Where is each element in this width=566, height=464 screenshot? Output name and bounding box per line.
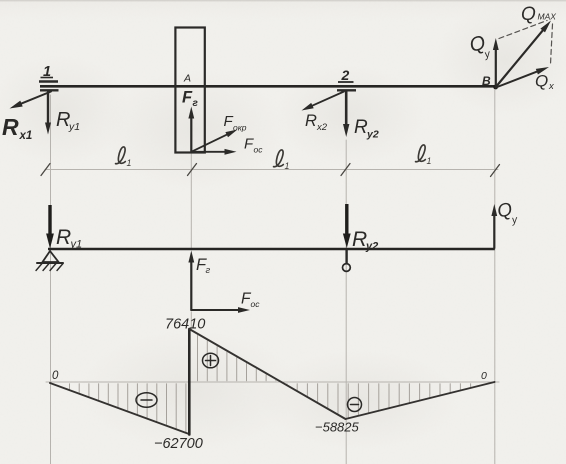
svg-text:Q: Q [521,4,536,25]
svg-text:R: R [354,117,368,138]
svg-text:R: R [352,228,367,251]
svg-text:y2: y2 [365,241,378,253]
force Ry2 arrow (top) [345,91,348,126]
force Ry2 arrow (middle) [345,204,348,236]
shear diagram segment 3 (-58825 to 0) [346,382,495,419]
force Fr arrow (top, up) [190,117,192,152]
shear diagram hatching (positive area) [197,335,199,381]
force Ry1 arrow (middle) [48,205,51,236]
svg-text:R: R [2,114,19,140]
shear diagram segment 2 (76410 to -58825) [189,329,345,419]
svg-text:0: 0 [481,370,487,382]
crank plate at A [175,28,204,153]
svg-text:A: A [183,73,191,85]
svg-text:ос: ос [254,145,264,155]
middle beam [48,248,495,250]
svg-text:y1: y1 [70,239,83,251]
svg-text:76410: 76410 [165,317,205,333]
pin support under Ry1 [43,251,59,262]
force Fos arrow (middle) [191,309,239,311]
construction line at support 2 [345,140,347,464]
roller support post under 2 [345,250,347,264]
node B dot [493,85,498,90]
force Fr arrow (middle, up) [190,261,192,310]
svg-text:1: 1 [427,156,432,166]
svg-text:R: R [305,112,317,130]
force Qmax arrow [496,29,544,87]
svg-text:F: F [182,89,193,107]
svg-text:0: 0 [52,370,59,382]
svg-text:B: B [482,74,491,88]
parallelogram dashed edge (Qmax tip to Qx tip) [551,24,553,64]
svg-text:x2: x2 [316,122,328,133]
construction line at support 1 [50,95,52,464]
paper grain [0,0,1,1]
roller support circle under 2 [343,264,351,272]
shear diagram hatching (right negative area) [286,383,288,385]
construction line at point B [494,90,496,464]
beam (shaft) [40,85,496,88]
svg-text:R: R [56,226,71,249]
svg-text:1: 1 [285,161,290,171]
shear diagram jump at A [188,329,191,435]
force Qy arrow (middle) [493,215,495,249]
svg-text:ос: ос [251,299,261,309]
dimension tick at A [188,164,197,176]
dimension tick at 2 [341,164,350,176]
svg-text:2: 2 [341,67,350,83]
force Qy arrow (top) [495,49,497,87]
support 2 symbol [337,89,356,91]
svg-text:x1: x1 [19,130,33,142]
shear diagram hatching (left negative area) [69,384,71,389]
svg-text:окр: окр [233,123,247,133]
force Rx2 arrow [311,92,344,107]
force Fos arrow (top) [191,151,226,153]
force Rx1 arrow [20,92,51,105]
svg-text:y1: y1 [68,121,80,133]
svg-text:г: г [193,98,199,109]
dimension tick at B [491,165,500,177]
construction line at point A [190,154,192,250]
svg-text:F: F [244,136,254,153]
svg-text:y2: y2 [366,129,379,141]
svg-text:−58825: −58825 [315,420,360,435]
svg-text:Q: Q [535,72,548,91]
svg-text:F: F [224,113,234,130]
parallelogram dashed edge (Qy tip to Qmax tip) [499,21,547,39]
shear diagram zero line [46,381,499,383]
svg-text:1: 1 [127,158,132,168]
length label l1 (span 1-A) [116,147,132,168]
force Fokr arrow [191,134,228,152]
shear diagram segment 1 (0 to -62700) [50,383,189,434]
dimension line [45,169,498,171]
force Ry1 arrow (top) [47,92,49,124]
minus sign in circle (right) [348,398,362,412]
dimension tick at 1 [41,164,50,176]
force Qx arrow [496,71,539,87]
length label l1 (span A-2) [274,150,290,171]
svg-text:г: г [206,265,211,276]
minus sign in circle (left) [136,393,157,408]
plus sign in circle [203,353,219,368]
length label l1 (span 2-B) [416,145,432,166]
svg-text:−62700: −62700 [154,436,203,452]
support 1 symbol [39,80,58,82]
